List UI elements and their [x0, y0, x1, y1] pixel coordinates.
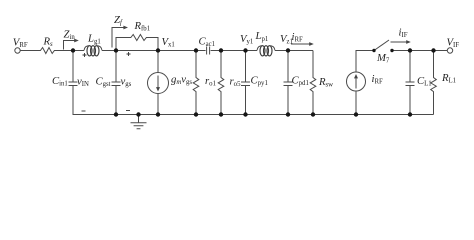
svg-text:Lp1: Lp1 [255, 30, 269, 43]
svg-text:CL1: CL1 [417, 75, 432, 88]
svg-text:VRF: VRF [13, 36, 28, 49]
svg-text:Rsw: Rsw [318, 76, 333, 89]
svg-text:VIF: VIF [447, 37, 460, 50]
svg-text:iIF: iIF [399, 27, 408, 40]
svg-text:M7: M7 [376, 52, 390, 65]
svg-text:iRF: iRF [372, 73, 384, 86]
svg-text:gmvgs: gmvgs [171, 74, 192, 87]
svg-text:iRF: iRF [292, 31, 304, 44]
svg-text:ro1: ro1 [205, 75, 216, 88]
svg-text:vIN: vIN [77, 75, 89, 88]
svg-text:ro5: ro5 [230, 75, 242, 88]
svg-text:Cpy1: Cpy1 [251, 75, 268, 88]
svg-text:RL1: RL1 [441, 72, 456, 85]
svg-text:vgs: vgs [121, 75, 132, 88]
svg-text:Vx1: Vx1 [162, 36, 175, 49]
svg-text:Zf: Zf [114, 14, 123, 27]
svg-text:Vy1: Vy1 [240, 33, 253, 46]
svg-text:Cpd1: Cpd1 [292, 75, 309, 88]
svg-text:Cac1: Cac1 [199, 35, 216, 48]
svg-text:Cin1: Cin1 [52, 75, 68, 88]
svg-text:Cgst: Cgst [96, 75, 111, 88]
svg-text:Rs: Rs [43, 36, 54, 49]
svg-text:Zin: Zin [64, 28, 76, 41]
svg-text:Lg1: Lg1 [87, 33, 101, 46]
svg-text:Rfb1: Rfb1 [134, 20, 151, 33]
